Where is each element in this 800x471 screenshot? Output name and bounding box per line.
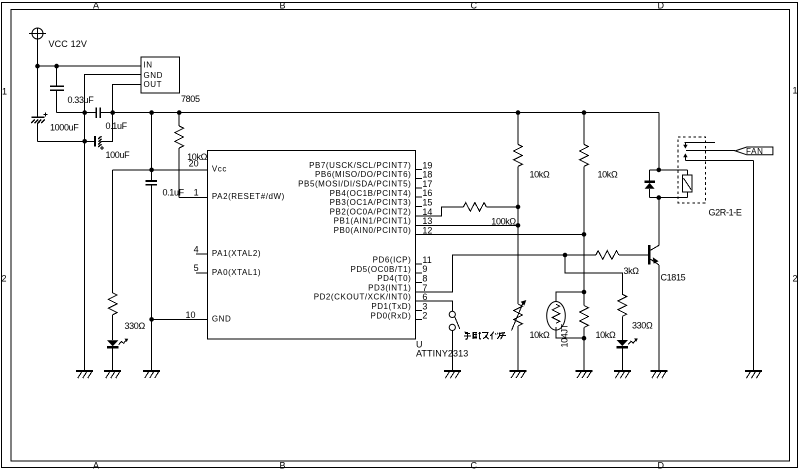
wire 12V rail (38, 65, 142, 67)
resistor R7 330 LED2 (618, 294, 627, 340)
svg-text:5: 5 (194, 263, 199, 273)
capacitor C3 0.1uF on rail (96, 108, 100, 118)
wire ground line y141 (38, 140, 95, 142)
ground symbol MCU GND (143, 371, 160, 378)
pin 13 PB1 wire (416, 224, 519, 226)
wire 7805 GND pin to ground rail (85, 75, 141, 371)
node junction CdS bottom (582, 336, 587, 341)
svg-text:1: 1 (793, 86, 798, 96)
svg-text:C: C (471, 1, 478, 11)
node junction GND at 5V rail crossing (82, 110, 87, 115)
pin 19 PB7 (416, 168, 422, 170)
photocell CdS 104JT (547, 302, 566, 331)
svg-text:104JT: 104JT (560, 323, 570, 347)
wire 5V rail corner down to relay (658, 113, 660, 170)
node junction OUT at 5V rail (110, 110, 115, 115)
svg-text:PB0(AIN0/PCINT0): PB0(AIN0/PCINT0) (334, 226, 412, 235)
svg-text:PD5(OC0B/T1): PD5(OC0B/T1) (350, 265, 411, 274)
svg-text:1: 1 (2, 87, 7, 97)
wire relay top (650, 169, 688, 171)
svg-text:PB6(MISO/DO/PCINT6): PB6(MISO/DO/PCINT6) (315, 170, 411, 179)
svg-text:12: 12 (422, 225, 432, 235)
svg-text:4: 4 (194, 244, 199, 254)
pin 11 PD6 (416, 263, 422, 265)
svg-text:10kΩ: 10kΩ (530, 330, 550, 340)
wire 5V rail right segment (100, 112, 659, 114)
pin 6 PD2 wire to switch (416, 301, 453, 311)
svg-text:A: A (93, 1, 99, 11)
relay contact fixed upper (683, 142, 715, 148)
ground symbol CdS divider (576, 371, 593, 378)
node junction base branch (563, 253, 568, 258)
svg-text:D: D (658, 1, 665, 11)
node junction VCC rail (35, 64, 40, 69)
svg-text:GND: GND (144, 71, 163, 80)
node junction 10k pullup2 at 5V rail (582, 110, 587, 115)
variable resistor VR1 10k (512, 300, 527, 371)
relay contact lower to ground (683, 153, 753, 371)
svg-text:B: B (280, 1, 286, 11)
ground symbol power LED (104, 371, 121, 378)
node junction reset pullup at 5V rail (177, 110, 182, 115)
svg-text:330Ω: 330Ω (125, 321, 146, 331)
svg-text:OUT: OUT (144, 80, 163, 89)
pin 4 PA1(XTAL2) (196, 253, 208, 255)
svg-text:PD0(RxD): PD0(RxD) (370, 311, 411, 320)
svg-text:Vcc: Vcc (212, 165, 227, 174)
capacitor C4 100uF electrolytic (95, 113, 113, 150)
wire VCC down to 12V rail (37, 39, 39, 66)
pin 14 PB2 wire with 100k resistor (416, 203, 519, 216)
ground symbol VR (510, 371, 527, 378)
svg-text:PB2(OC0A/PCINT2): PB2(OC0A/PCINT2) (330, 207, 412, 216)
svg-text:1: 1 (194, 187, 199, 197)
ground symbol emitter (650, 371, 667, 378)
svg-text:10kΩ: 10kΩ (596, 330, 616, 340)
wire 5V rail left segment (57, 112, 97, 114)
LED D2 status (617, 338, 638, 371)
svg-text:PA1(XTAL2): PA1(XTAL2) (212, 249, 261, 258)
MCU U1 ATTINY2313 box (208, 151, 416, 339)
svg-text:20: 20 (189, 158, 199, 168)
capacitor C2 0.33uF (50, 66, 64, 113)
relay K1 coil (682, 170, 692, 198)
svg-text:PD1(TxD): PD1(TxD) (371, 302, 411, 311)
svg-text:PD6(ICP): PD6(ICP) (373, 256, 412, 265)
pin 3 PD1 (416, 309, 422, 311)
svg-text:FAN: FAN (746, 147, 764, 156)
svg-text:PD4(T0): PD4(T0) (377, 274, 411, 283)
resistor R3 10k pullup1 (514, 113, 523, 207)
capacitor C5 0.1uF decoupling (145, 170, 157, 371)
LED D1 power (107, 339, 128, 371)
transistor Q1 C1815 (649, 198, 658, 371)
svg-text:PB3(OC1A/PCINT3): PB3(OC1A/PCINT3) (330, 198, 412, 207)
ground symbol LED2 (614, 371, 631, 378)
svg-text:PA0(XTAL1): PA0(XTAL1) (212, 268, 261, 277)
node junction 0.33uF rail (54, 64, 59, 69)
svg-text:2: 2 (2, 274, 7, 284)
svg-text:PB7(USCK/SCL/PCINT7): PB7(USCK/SCL/PCINT7) (309, 161, 411, 170)
capacitor C1 1000uF electrolytic (31, 66, 47, 141)
svg-text:C1815: C1815 (661, 273, 686, 283)
svg-text:ATTINY2313: ATTINY2313 (416, 348, 468, 358)
wire 7805 OUT pin to 5V rail (113, 84, 141, 112)
ground symbol FAN return (745, 371, 762, 378)
svg-text:PD2(CKOUT/XCK/INT0): PD2(CKOUT/XCK/INT0) (314, 293, 412, 302)
pin 16 PB4 (416, 196, 422, 198)
node junction GND pin (149, 317, 154, 322)
svg-text:VCC 12V: VCC 12V (49, 39, 88, 49)
switch SW1 manual (449, 311, 460, 371)
pin 10 GND (152, 318, 208, 320)
svg-text:B: B (280, 461, 286, 471)
svg-text:PD3(INT1): PD3(INT1) (368, 283, 411, 292)
svg-text:G2R-1-E: G2R-1-E (709, 207, 742, 217)
wire 5V to MCU Vcc pin (113, 169, 208, 171)
svg-text:PB4(OC1B/PCINT4): PB4(OC1B/PCINT4) (330, 189, 412, 198)
node junction relay bottom (657, 195, 662, 200)
svg-text:10: 10 (185, 310, 195, 320)
svg-text:3kΩ: 3kΩ (624, 266, 640, 276)
relay contact common to FAN (686, 149, 735, 151)
resistor R6 3k base (565, 251, 648, 260)
svg-text:PA2(RESET#/dW): PA2(RESET#/dW) (212, 192, 285, 201)
svg-text:PB1(AIN1/PCINT1): PB1(AIN1/PCINT1) (334, 217, 412, 226)
wire CdS bottom (556, 330, 584, 338)
wire 5V rail down to Vcc wire (151, 113, 153, 170)
svg-text:GND: GND (212, 314, 231, 323)
wire branch to LED2 (565, 255, 622, 294)
svg-text:2: 2 (793, 274, 798, 284)
pin 5 PA0(XTAL1) (196, 272, 208, 274)
node junction pin13 at pullup (516, 223, 521, 228)
wire pullup2 down to CdS node (583, 234, 585, 292)
node junction decoupling at 5V rail (149, 110, 154, 115)
ground symbol 7805 GND (76, 371, 93, 378)
pin 18 PB6 (416, 178, 422, 180)
svg-text:PB5(MOSI/DI/SDA/PCINT5): PB5(MOSI/DI/SDA/PCINT5) (298, 180, 411, 189)
svg-text:1000uF: 1000uF (50, 122, 79, 132)
node junction CdS top (582, 290, 587, 295)
resistor R1 10k reset pullup (175, 113, 208, 198)
svg-text:100uF: 100uF (106, 150, 131, 160)
resistor R5 10k parallel CdS (580, 292, 589, 371)
connector FAN tag (735, 147, 773, 155)
pin 15 PB3 (416, 206, 422, 208)
node junction decap at Vcc wire (149, 168, 154, 173)
pin 7 PD3 wire to transistor base (416, 255, 566, 292)
power symbol VCC 12V (29, 28, 46, 39)
node junction relay top (657, 168, 662, 173)
svg-text:IN: IN (144, 61, 153, 70)
pin 8 PD4 (416, 282, 422, 284)
pin 12 PB0 wire (416, 233, 585, 235)
node junction pin12 at pullup2 (582, 232, 587, 237)
svg-text:2: 2 (422, 311, 427, 321)
pin 17 PB5 (416, 187, 422, 189)
pin 9 PD5 (416, 272, 422, 274)
svg-text:D: D (658, 461, 665, 471)
svg-text:10kΩ: 10kΩ (530, 170, 550, 180)
svg-text:0.1uF: 0.1uF (163, 188, 185, 198)
wire relay bottom (650, 197, 688, 199)
svg-text:10kΩ: 10kΩ (598, 170, 618, 180)
resistor R2 330 power LED (108, 170, 117, 340)
svg-text:A: A (93, 461, 99, 471)
svg-text:330Ω: 330Ω (632, 321, 653, 331)
node junction gnd line (82, 139, 87, 144)
pin 2 PD0 (416, 319, 422, 321)
svg-text:0.33uF: 0.33uF (68, 95, 95, 105)
svg-text:7805: 7805 (181, 94, 200, 104)
ground symbol switch (444, 371, 461, 378)
wire CdS top (556, 292, 584, 302)
label manual switch (katakana strokes) (464, 332, 506, 340)
node junction 100k at pullup (516, 205, 521, 210)
node junction 10k pullup1 at 5V rail (516, 110, 521, 115)
svg-text:0.1uF: 0.1uF (106, 121, 128, 131)
resistor R4 10k pullup2 (580, 113, 589, 235)
diode D3 flyback (644, 170, 655, 198)
wire pullup1 down to variable resistor (517, 207, 519, 304)
svg-text:C: C (471, 461, 478, 471)
regulator U2 7805 box (141, 57, 179, 93)
relay K1 dashed outline (678, 137, 706, 203)
